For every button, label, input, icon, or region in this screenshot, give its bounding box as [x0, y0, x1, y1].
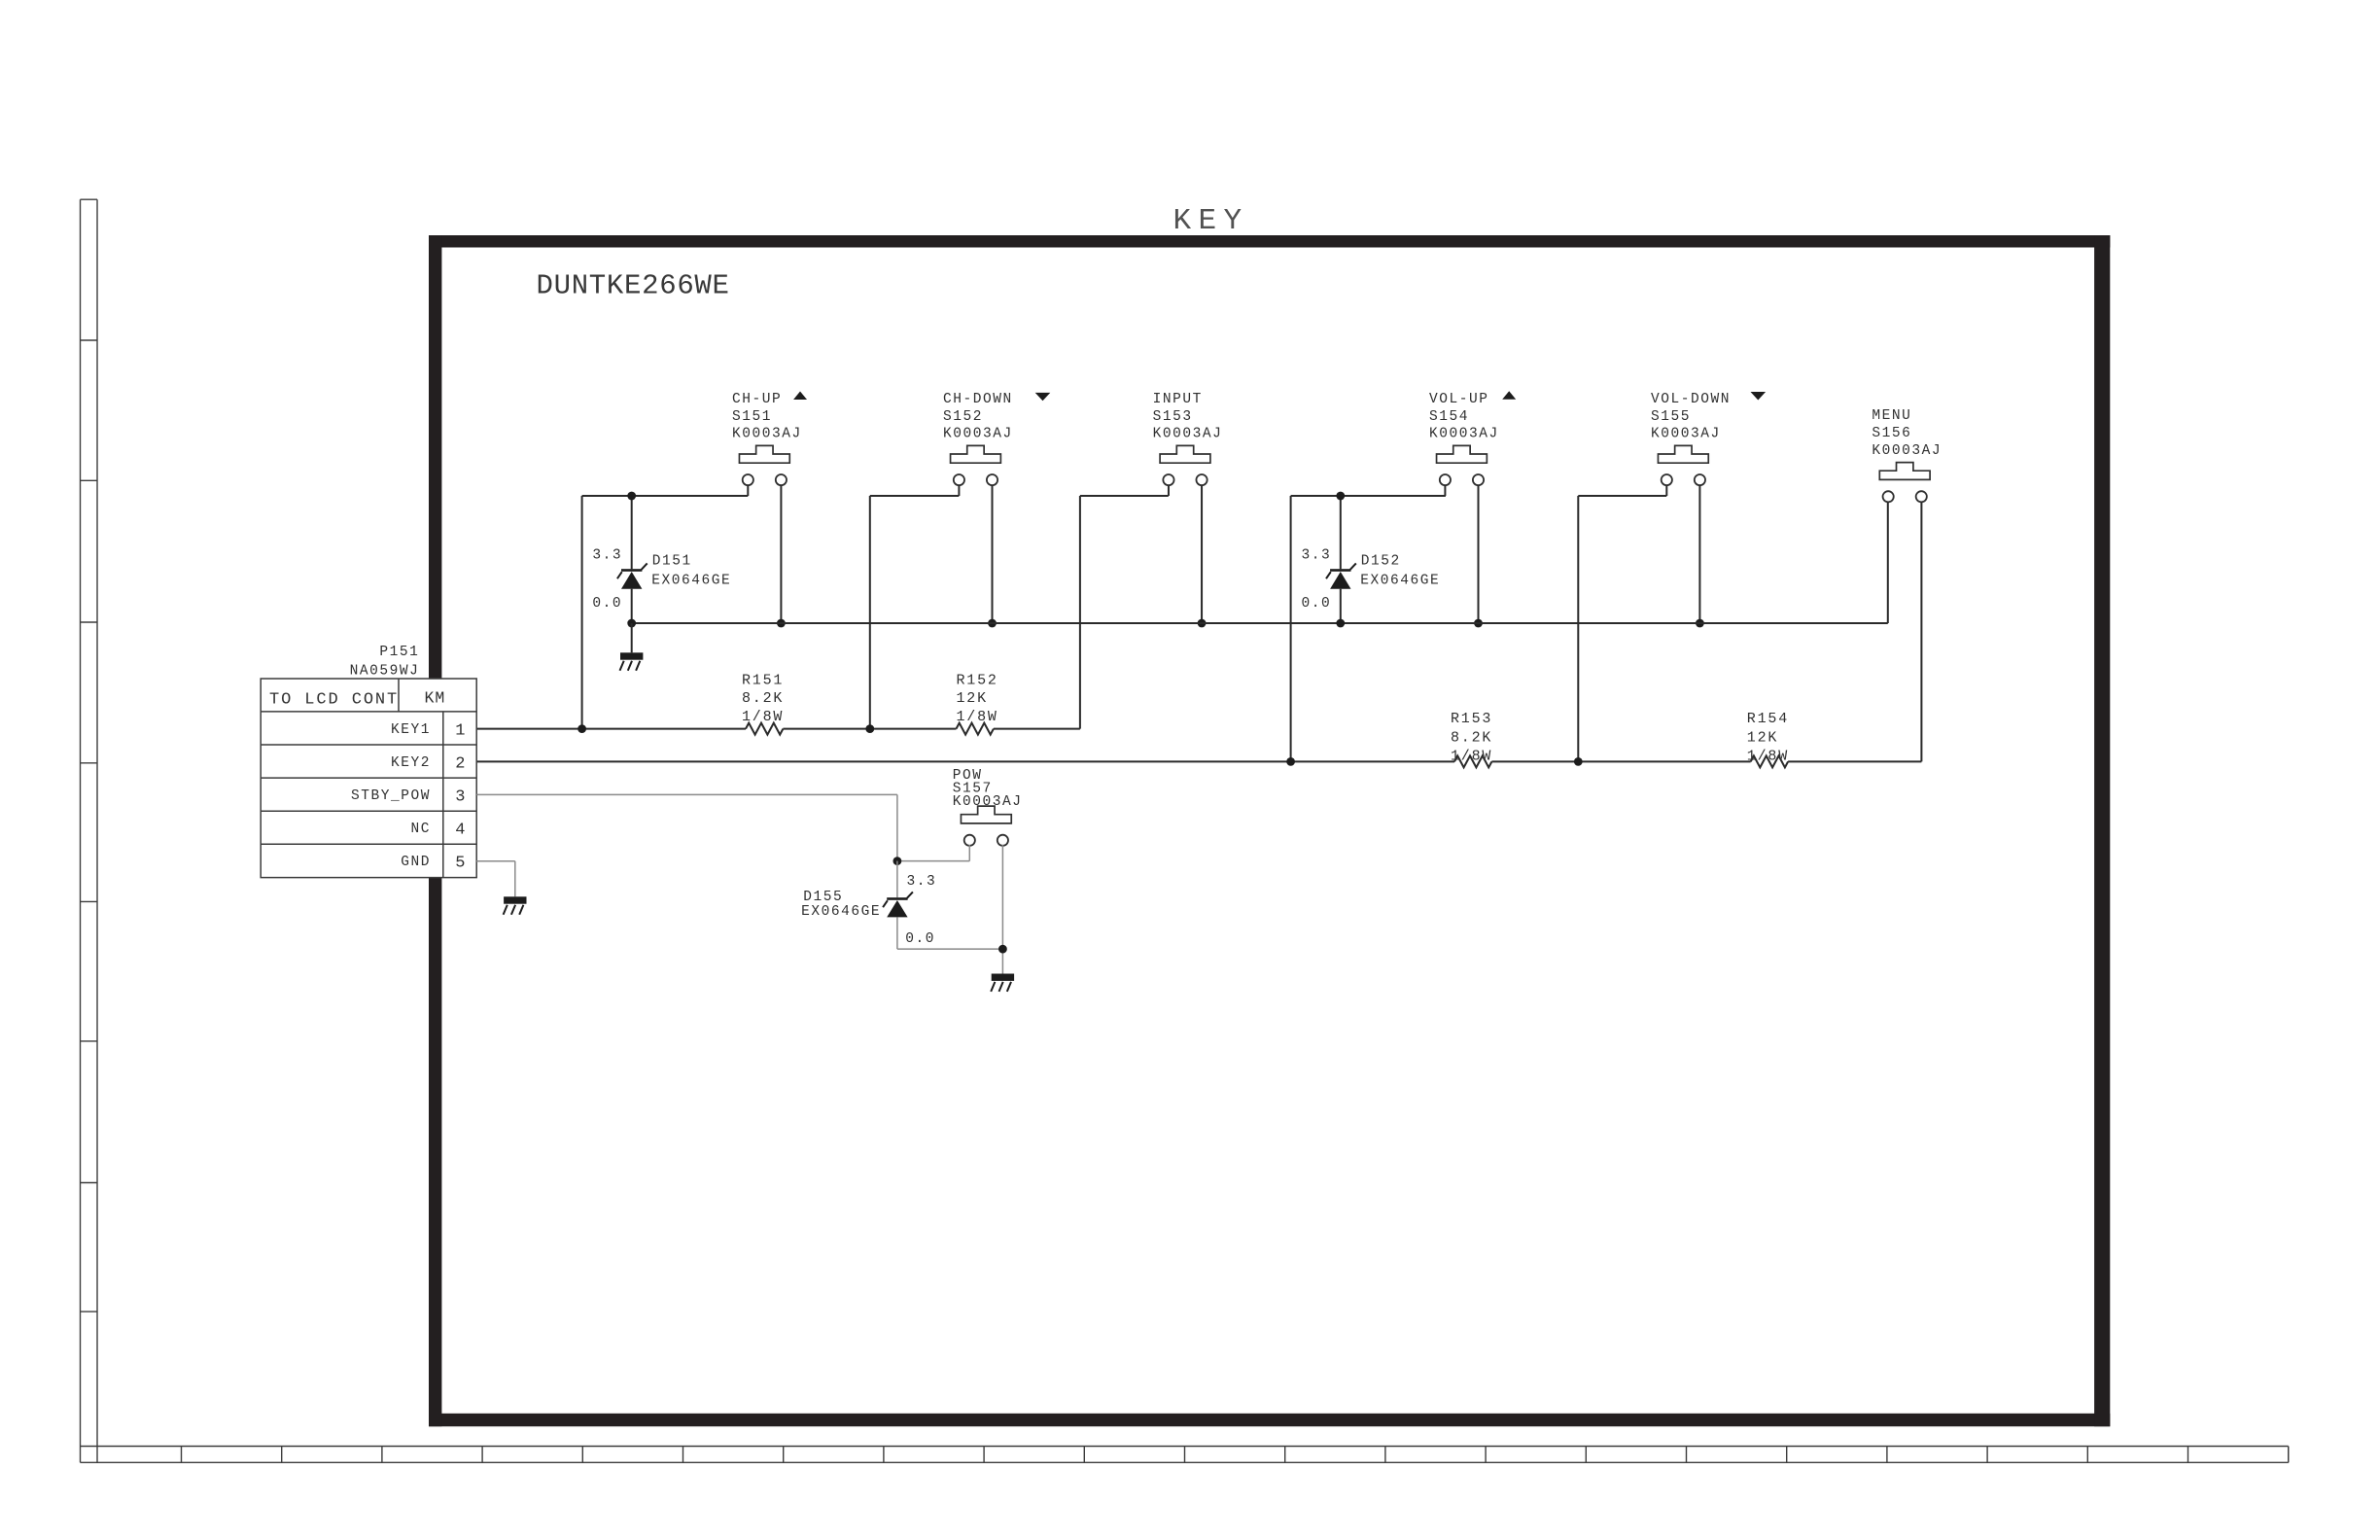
- svg-text:INPUT: INPUT: [1153, 392, 1203, 407]
- svg-text:S152: S152: [943, 409, 983, 425]
- svg-text:K0003AJ: K0003AJ: [943, 427, 1013, 442]
- svg-text:0.0: 0.0: [1302, 596, 1332, 612]
- svg-text:VOL-UP: VOL-UP: [1429, 392, 1489, 407]
- svg-text:3.3: 3.3: [907, 874, 937, 890]
- svg-text:KEY: KEY: [1173, 204, 1249, 238]
- svg-text:3: 3: [455, 788, 465, 807]
- svg-text:12K: 12K: [957, 690, 988, 707]
- svg-text:0.0: 0.0: [592, 596, 622, 612]
- svg-text:CH-DOWN: CH-DOWN: [943, 392, 1013, 407]
- svg-text:TO LCD CONT: TO LCD CONT: [269, 690, 399, 709]
- svg-text:KEY2: KEY2: [391, 755, 431, 771]
- svg-text:R153: R153: [1451, 711, 1492, 727]
- svg-text:NA059WJ: NA059WJ: [350, 664, 420, 680]
- svg-text:DUNTKE266WE: DUNTKE266WE: [537, 270, 730, 302]
- svg-text:S155: S155: [1651, 409, 1691, 425]
- svg-text:D155: D155: [803, 890, 843, 905]
- svg-text:1/8W: 1/8W: [1451, 748, 1492, 764]
- svg-text:1: 1: [455, 721, 465, 740]
- svg-text:K0003AJ: K0003AJ: [953, 794, 1023, 810]
- svg-text:VOL-DOWN: VOL-DOWN: [1651, 392, 1731, 407]
- svg-text:KM: KM: [425, 689, 446, 708]
- svg-text:S151: S151: [732, 409, 772, 425]
- svg-text:8.2K: 8.2K: [742, 690, 784, 707]
- svg-text:P151: P151: [379, 645, 419, 660]
- svg-text:K0003AJ: K0003AJ: [1153, 427, 1223, 442]
- svg-text:K0003AJ: K0003AJ: [1651, 427, 1721, 442]
- svg-text:8.2K: 8.2K: [1451, 729, 1492, 746]
- svg-text:S154: S154: [1429, 409, 1469, 425]
- svg-text:S156: S156: [1872, 426, 1911, 441]
- svg-text:K0003AJ: K0003AJ: [1872, 443, 1942, 459]
- svg-text:1/8W: 1/8W: [957, 709, 998, 725]
- svg-text:5: 5: [455, 855, 465, 873]
- svg-text:1/8W: 1/8W: [1747, 748, 1789, 764]
- svg-text:0.0: 0.0: [905, 931, 935, 947]
- svg-text:R154: R154: [1747, 711, 1789, 727]
- svg-text:MENU: MENU: [1872, 408, 1911, 424]
- svg-text:D151: D151: [652, 554, 692, 570]
- svg-text:STBY_POW: STBY_POW: [351, 788, 431, 804]
- svg-text:4: 4: [455, 822, 465, 840]
- svg-text:S153: S153: [1153, 409, 1193, 425]
- svg-text:GND: GND: [401, 855, 431, 870]
- svg-text:EX0646GE: EX0646GE: [651, 574, 731, 589]
- svg-text:1/8W: 1/8W: [742, 709, 784, 725]
- svg-text:EX0646GE: EX0646GE: [801, 904, 881, 920]
- svg-text:K0003AJ: K0003AJ: [732, 427, 802, 442]
- svg-text:KEY1: KEY1: [391, 722, 431, 738]
- svg-text:R152: R152: [957, 672, 998, 688]
- svg-text:12K: 12K: [1747, 729, 1778, 746]
- svg-text:2: 2: [455, 754, 465, 773]
- svg-text:NC: NC: [410, 822, 431, 837]
- svg-text:3.3: 3.3: [592, 547, 622, 563]
- svg-text:R151: R151: [742, 672, 784, 688]
- svg-text:D152: D152: [1361, 554, 1401, 570]
- svg-text:K0003AJ: K0003AJ: [1429, 427, 1499, 442]
- svg-text:3.3: 3.3: [1302, 547, 1332, 563]
- svg-text:CH-UP: CH-UP: [732, 392, 782, 407]
- svg-text:EX0646GE: EX0646GE: [1360, 574, 1440, 589]
